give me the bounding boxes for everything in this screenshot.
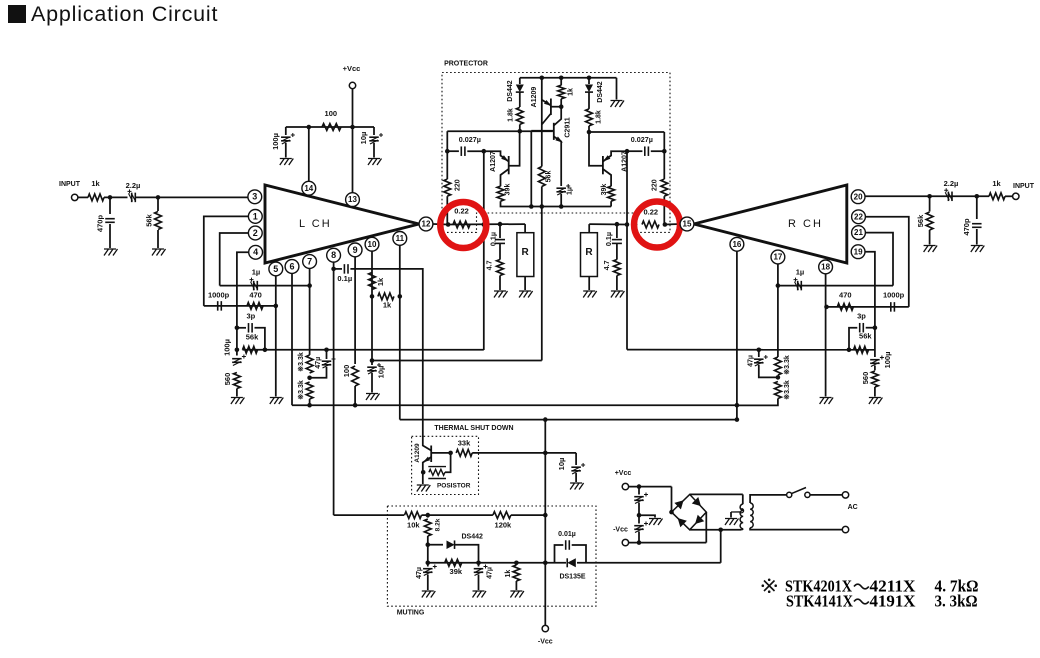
wire 1u row R xyxy=(778,285,893,287)
node xyxy=(482,149,487,154)
resistor 470 L xyxy=(247,303,263,310)
ground xyxy=(494,291,508,298)
svg-text:10k: 10k xyxy=(407,520,420,529)
node xyxy=(540,204,545,209)
svg-text:100: 100 xyxy=(342,365,351,378)
node xyxy=(529,204,534,209)
rail NF right y350 xyxy=(627,349,875,351)
svg-text:POSISTOR: POSISTOR xyxy=(437,483,471,490)
node xyxy=(446,222,451,227)
node xyxy=(235,326,240,331)
wire pin20 rail xyxy=(865,195,989,197)
svg-text:0.027µ: 0.027µ xyxy=(459,135,481,144)
ground xyxy=(820,398,834,405)
svg-text:56k: 56k xyxy=(859,331,872,340)
node xyxy=(398,294,403,299)
resistor 1k L input xyxy=(88,194,104,201)
wire top rail right end ground xyxy=(616,78,618,100)
node xyxy=(543,451,548,456)
resistor 100 pin9 xyxy=(352,366,359,386)
wire ground stub xyxy=(639,515,655,517)
svg-text:12: 12 xyxy=(422,220,431,229)
wire bridge bottom rail xyxy=(690,529,742,531)
wire pin15 output xyxy=(589,223,627,225)
pin 9 xyxy=(348,243,362,257)
capacitor 3p L xyxy=(237,327,246,329)
wire 1u row xyxy=(220,285,310,287)
resistor 220 R xyxy=(661,179,668,196)
resistor 1.8k L xyxy=(516,107,523,124)
svg-text:15: 15 xyxy=(683,220,692,229)
AC terminal bottom xyxy=(842,526,848,532)
svg-text:8.2k: 8.2k xyxy=(435,518,442,531)
svg-text:22: 22 xyxy=(854,212,863,221)
wire secondary top xyxy=(750,495,787,503)
svg-text:0.22: 0.22 xyxy=(643,207,658,216)
node xyxy=(331,267,336,272)
pin 15 xyxy=(680,217,694,231)
resistor 0.22 L xyxy=(453,221,470,228)
pin 20 xyxy=(851,190,865,204)
capacitor 47u R xyxy=(758,350,760,357)
INPUT terminal R xyxy=(1013,193,1019,199)
pin 1 xyxy=(248,210,262,224)
wire 1000p/470 row xyxy=(204,305,276,307)
wire pin21 corner xyxy=(865,233,893,286)
svg-text:1k: 1k xyxy=(567,88,574,96)
svg-text:39k: 39k xyxy=(504,184,511,196)
ground xyxy=(611,101,625,108)
svg-text:DS135E: DS135E xyxy=(559,573,585,580)
wire rail B y419.6 xyxy=(400,419,737,421)
svg-text:2: 2 xyxy=(253,228,258,238)
svg-text:1.8k: 1.8k xyxy=(508,108,515,122)
pin 3 xyxy=(248,190,262,204)
node xyxy=(324,348,329,353)
resistor 3.3k R upper xyxy=(775,357,782,375)
capacitor 1u L xyxy=(253,281,255,291)
svg-text:1.8k: 1.8k xyxy=(596,110,603,124)
ground xyxy=(869,398,883,405)
node xyxy=(735,403,740,408)
ground xyxy=(280,159,294,166)
resistor 56k L input xyxy=(157,197,159,211)
svg-text:560: 560 xyxy=(223,373,232,386)
ground xyxy=(152,249,166,256)
resistor 1.8k R xyxy=(586,109,593,126)
node xyxy=(307,376,312,381)
node xyxy=(445,149,450,154)
svg-text:-Vcc: -Vcc xyxy=(613,526,628,533)
ground xyxy=(104,249,118,256)
wire pin22 corner xyxy=(865,217,908,307)
resistor 56k R fb xyxy=(854,346,869,353)
ground xyxy=(417,485,431,492)
node xyxy=(482,222,487,227)
svg-text:17: 17 xyxy=(773,253,782,262)
resistor 1k R input xyxy=(989,193,1005,200)
resistor 1k muting xyxy=(515,563,517,565)
wire muting rail2 xyxy=(427,545,429,563)
wire pin18 vertical xyxy=(825,274,827,397)
transformer secondary coil xyxy=(750,503,753,528)
svg-text:Application Circuit: Application Circuit xyxy=(31,2,218,26)
wire xyxy=(422,514,493,516)
diode DS135E xyxy=(545,562,566,564)
pin 19 xyxy=(851,245,865,259)
svg-text:0.22: 0.22 xyxy=(454,206,469,215)
wire +vcc corner down xyxy=(671,487,673,512)
node xyxy=(514,561,519,566)
resistor 470 R xyxy=(837,304,853,311)
node xyxy=(498,222,503,227)
svg-text:※3.3k: ※3.3k xyxy=(297,352,305,372)
node xyxy=(625,149,630,154)
pin 13 xyxy=(346,193,360,207)
svg-text:20: 20 xyxy=(854,192,863,201)
svg-text:10: 10 xyxy=(368,240,377,249)
load resistor R L xyxy=(524,224,526,233)
resistor 39k muting xyxy=(445,559,462,566)
svg-text:47µ: 47µ xyxy=(747,355,754,367)
pin 16 xyxy=(730,237,744,251)
node xyxy=(625,222,630,227)
resistor 39k R xyxy=(608,186,615,201)
node xyxy=(776,375,781,380)
pin 5 xyxy=(269,262,283,276)
capacitor 22u psu lower xyxy=(638,515,640,523)
wire xyxy=(810,494,842,496)
svg-text:10µ: 10µ xyxy=(376,366,385,379)
node xyxy=(637,513,642,518)
wire drop x531.3 xyxy=(530,131,532,206)
svg-text:4: 4 xyxy=(253,247,258,257)
svg-text:56k: 56k xyxy=(546,171,553,183)
svg-text:+Vcc: +Vcc xyxy=(343,64,361,73)
resistor 0.22 R xyxy=(642,221,659,228)
wire xyxy=(78,196,88,198)
node xyxy=(235,348,240,353)
op-amp L CH triangle xyxy=(265,185,419,263)
capacitor 10u top xyxy=(373,127,375,135)
node xyxy=(824,305,829,310)
wire protector top rail xyxy=(520,77,617,79)
op-amp R CH triangle xyxy=(694,185,847,263)
node xyxy=(559,204,564,209)
resistor 100 xyxy=(322,124,341,131)
node xyxy=(718,528,723,533)
resistor 220 L xyxy=(444,179,451,196)
capacitor 0.027u R xyxy=(627,150,642,152)
ground xyxy=(725,519,739,526)
node xyxy=(307,283,312,288)
resistor 3.3k R lower xyxy=(775,382,782,399)
capacitor 10u thermal xyxy=(575,453,577,465)
svg-text:470: 470 xyxy=(839,290,852,299)
svg-text:1k: 1k xyxy=(992,179,1001,188)
wire 33k to 10u xyxy=(472,452,576,454)
diode DS442 L xyxy=(519,78,521,84)
svg-text:2.2µ: 2.2µ xyxy=(944,179,959,188)
svg-text:3p: 3p xyxy=(857,311,866,320)
node xyxy=(615,222,620,227)
posistor xyxy=(429,469,445,475)
pin 11 xyxy=(393,232,407,246)
pin 6 xyxy=(285,260,299,274)
svg-text:1µ: 1µ xyxy=(252,267,261,276)
bridge diode 4 xyxy=(692,515,704,527)
transistor A1207 R xyxy=(602,156,604,174)
capacitor 47u muting 1 xyxy=(427,563,429,567)
ground xyxy=(971,246,985,253)
pin 2 xyxy=(248,226,262,240)
svg-text:2.2µ: 2.2µ xyxy=(126,181,141,190)
ground xyxy=(649,519,663,526)
node xyxy=(559,104,564,109)
node xyxy=(543,561,548,566)
svg-text:DS442: DS442 xyxy=(597,81,604,103)
wire center vertical to -Vcc xyxy=(544,420,546,626)
transistor A1209 protector xyxy=(541,78,543,165)
svg-text:R: R xyxy=(521,247,529,258)
wire pin4 stub xyxy=(237,252,249,355)
node xyxy=(873,325,878,330)
resistor 56k R input xyxy=(929,196,931,211)
resistor 56k protector xyxy=(538,167,545,187)
wire pin19 corner xyxy=(865,252,875,328)
svg-text:4.7: 4.7 xyxy=(602,260,611,270)
node junction 56k L xyxy=(156,195,161,200)
node xyxy=(637,540,642,545)
load resistor R R xyxy=(588,224,590,233)
svg-text:0.1µ: 0.1µ xyxy=(604,232,613,246)
svg-text:100µ: 100µ xyxy=(271,133,280,150)
svg-text:1k: 1k xyxy=(376,277,385,286)
node xyxy=(274,304,279,309)
wire branch y360 to protector xyxy=(372,360,542,362)
pin 18 xyxy=(819,260,833,274)
node xyxy=(669,510,674,515)
wire +Vcc to pin13 xyxy=(352,89,354,193)
ground xyxy=(510,591,524,598)
ground xyxy=(611,291,625,298)
ground xyxy=(366,394,380,401)
svg-text:-Vcc: -Vcc xyxy=(538,638,553,645)
resistor 4.7 R xyxy=(616,244,618,260)
resistor 120k xyxy=(493,512,511,519)
wire pin9 vertical xyxy=(354,257,356,364)
node xyxy=(518,129,523,134)
svg-text:PROTECTOR: PROTECTOR xyxy=(444,60,488,67)
svg-text:DS442: DS442 xyxy=(507,80,514,102)
svg-text:THERMAL SHUT DOWN: THERMAL SHUT DOWN xyxy=(434,425,513,432)
svg-text:1000p: 1000p xyxy=(883,290,905,299)
capacitor 2.2u L xyxy=(131,193,133,203)
svg-text:100µ: 100µ xyxy=(883,352,892,369)
svg-text:※3.3k: ※3.3k xyxy=(783,355,791,375)
svg-text:6: 6 xyxy=(289,261,294,271)
transistor A1207 L xyxy=(508,156,510,174)
capacitor 0.1u output L xyxy=(499,224,501,238)
wire pin7 vertical xyxy=(309,268,311,355)
svg-text:AC: AC xyxy=(848,504,858,511)
wire xyxy=(629,486,672,488)
protector dotted box xyxy=(442,73,670,233)
wire pin16 vertical xyxy=(736,251,738,419)
svg-text:100µ: 100µ xyxy=(222,339,231,356)
ground xyxy=(368,159,382,166)
svg-text:+Vcc: +Vcc xyxy=(615,470,632,477)
node xyxy=(426,542,431,547)
ground xyxy=(270,398,284,405)
capacitor 1u protector xyxy=(556,187,566,189)
node xyxy=(370,358,375,363)
node xyxy=(540,76,545,81)
wire pin11 vertical xyxy=(399,245,401,419)
wire right drop x664.3 xyxy=(663,132,665,179)
wire pin8 vertical xyxy=(333,262,335,515)
svg-text:4.7: 4.7 xyxy=(485,260,494,270)
resistor 4.7 L xyxy=(499,244,501,260)
svg-text:10µ: 10µ xyxy=(359,132,368,145)
svg-text:※3.3k: ※3.3k xyxy=(297,380,305,400)
muting dotted box xyxy=(387,506,596,606)
wire pin2 stub xyxy=(220,233,249,286)
svg-text:MUTING: MUTING xyxy=(397,609,425,616)
resistor 1k horizontal xyxy=(378,293,394,300)
svg-text:13: 13 xyxy=(348,195,357,204)
svg-text:470: 470 xyxy=(249,290,262,299)
capacitor 10u pin10 xyxy=(367,366,377,368)
node xyxy=(448,451,453,456)
capacitor 3p R xyxy=(849,328,857,350)
pin 17 xyxy=(771,250,785,264)
diode DS442 muting xyxy=(428,544,443,546)
bridge rectifier diamond xyxy=(672,494,707,529)
svg-text:470p: 470p xyxy=(962,218,971,236)
svg-text:16: 16 xyxy=(732,240,741,249)
resistor 56k L fb xyxy=(243,346,258,353)
node xyxy=(927,194,932,199)
wire xyxy=(511,514,545,516)
wire left drop x447 xyxy=(446,131,448,179)
wire secondary bottom xyxy=(750,528,842,530)
wire rail A up to pin16 region xyxy=(736,404,738,406)
node xyxy=(350,125,355,130)
bridge diode 3 xyxy=(674,515,686,527)
svg-text:56k: 56k xyxy=(246,332,259,341)
svg-text:5: 5 xyxy=(273,264,278,274)
svg-text:0.027µ: 0.027µ xyxy=(631,135,653,144)
transformer primary coil xyxy=(740,504,743,529)
svg-text:C2911: C2911 xyxy=(565,117,572,137)
INPUT terminal L xyxy=(72,194,78,200)
svg-text:1µ: 1µ xyxy=(567,187,574,195)
svg-text:220: 220 xyxy=(454,179,461,191)
wire pin10 vertical xyxy=(371,251,373,365)
title block xyxy=(8,5,26,23)
svg-text:220: 220 xyxy=(651,179,658,191)
AC terminal top xyxy=(842,492,848,498)
capacitor 1000p L xyxy=(217,301,219,311)
wire pin12 output xyxy=(433,223,448,226)
transformer center tap curl xyxy=(731,509,744,513)
wire pin1 stub xyxy=(204,216,249,306)
svg-text:39k: 39k xyxy=(450,567,463,576)
svg-text:R: R xyxy=(585,247,593,258)
resistor 1k protector xyxy=(558,85,565,99)
wire Vcc rail xyxy=(286,126,374,128)
capacitor 2.2u R xyxy=(947,192,949,202)
resistor 1k pin10 xyxy=(369,273,376,290)
capacitor 470p R xyxy=(976,196,978,219)
ground xyxy=(473,591,487,598)
node xyxy=(307,125,312,130)
pin 21 xyxy=(852,226,866,240)
node xyxy=(370,294,375,299)
node xyxy=(975,194,980,199)
svg-text:A1207: A1207 xyxy=(490,151,497,172)
wire inner drop x483.8 xyxy=(483,151,485,350)
svg-text:3: 3 xyxy=(252,192,257,202)
-Vcc terminal psu xyxy=(622,539,628,545)
resistor 560 R xyxy=(874,366,876,371)
node xyxy=(663,222,668,227)
svg-text:47µ: 47µ xyxy=(487,567,494,579)
svg-text:19: 19 xyxy=(854,247,863,256)
svg-text:10µ: 10µ xyxy=(557,458,566,471)
svg-text:1: 1 xyxy=(253,211,258,221)
wire xyxy=(104,196,128,198)
svg-text:0.1µ: 0.1µ xyxy=(489,232,498,246)
svg-text:560: 560 xyxy=(861,372,870,385)
wire protector mid rail y131 xyxy=(447,130,553,132)
svg-text:7: 7 xyxy=(307,256,312,266)
svg-text:R CH: R CH xyxy=(788,218,823,230)
wire pin19 vertical lower xyxy=(874,328,876,357)
node xyxy=(421,470,426,475)
svg-text:33k: 33k xyxy=(458,438,471,447)
node xyxy=(637,484,642,489)
+Vcc terminal xyxy=(349,82,355,88)
wire rail A y405 xyxy=(292,404,737,406)
wire center drop x541.8 to y360 xyxy=(541,207,543,361)
wire bridge top to transformer xyxy=(689,493,691,495)
+Vcc terminal psu xyxy=(622,483,628,489)
svg-text:※3.3k: ※3.3k xyxy=(783,380,791,400)
svg-text:A1209: A1209 xyxy=(531,87,538,108)
node xyxy=(476,561,481,566)
capacitor 470p L xyxy=(109,197,111,214)
capacitor 1000p R xyxy=(890,302,892,312)
diode DS442 R xyxy=(588,78,590,84)
wire protector mid rail right xyxy=(589,131,664,133)
node xyxy=(847,348,852,353)
wire xyxy=(629,542,707,544)
resistor 3.3k L lower xyxy=(306,382,313,399)
wire pin5 vertical xyxy=(275,276,277,397)
svg-text:INPUT: INPUT xyxy=(59,181,81,188)
ground xyxy=(519,291,533,298)
wire emitter to ground xyxy=(422,472,424,484)
capacitor 0.027u L xyxy=(447,150,459,152)
svg-text:1k: 1k xyxy=(383,300,392,309)
ground xyxy=(231,398,245,405)
pin 14 xyxy=(302,181,316,195)
wire muting feed xyxy=(334,514,405,516)
node xyxy=(543,417,548,422)
svg-text:18: 18 xyxy=(821,263,830,272)
